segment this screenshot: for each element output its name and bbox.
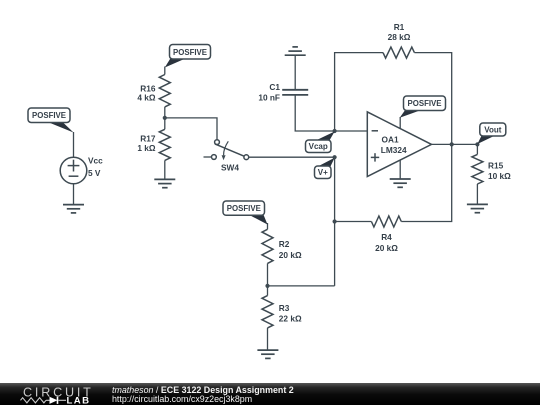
svg-text:20 kΩ: 20 kΩ [279,250,302,260]
flag POSFIVE (net label above R2) [249,215,268,225]
capacitor C1 10 nF [282,90,308,95]
wire: Vcc bottom to ground [73,184,75,205]
svg-text:R2: R2 [279,239,290,249]
resistor R1 28 kOhm [383,47,414,58]
svg-text:22 kΩ: 22 kΩ [279,314,302,324]
op-amp OA1 LM324 [367,112,431,177]
footer bar [0,383,540,405]
wire: SW4 common to V+ node [249,156,335,158]
svg-text:Vout: Vout [484,126,502,135]
flag V+ (node label) [318,158,335,167]
flag Vcap (node label) [316,132,335,141]
wire: R3 bottom to ground [267,328,269,350]
wire: V+ node down to R2/R4 net [334,157,336,286]
svg-text:POSFIVE: POSFIVE [173,47,207,57]
svg-text:R3: R3 [279,303,290,313]
svg-text:4 kΩ: 4 kΩ [137,93,156,103]
voltage source V1 Vcc 5 V [60,157,87,184]
svg-text:C1: C1 [269,82,280,92]
svg-text:LM324: LM324 [381,145,407,155]
svg-text:V+: V+ [318,168,328,177]
flag POSFIVE (net label on Vcc source) [47,122,74,133]
ground (op-amp V-) [390,179,411,187]
wire: POSFIVE flag to Vcc V1 top [73,132,75,157]
CircuitLab logo [21,385,94,405]
wire: R16 bottom to junction [164,107,166,129]
wire: feedback bottom vertical to R4 [401,144,451,221]
svg-text:SW4: SW4 [221,162,239,172]
wire: junction to SW4 top throw [165,118,217,140]
node junction (R2/R3) [265,284,269,288]
wire: POSFIVE flag to R16 top [164,67,166,75]
wire: R1 to output node vertical [414,53,451,145]
op-amp V+ supply pin [399,117,401,129]
svg-text:R1: R1 [394,22,405,32]
svg-text:10 nF: 10 nF [258,93,280,103]
resistor R16 4 kOhm [159,75,170,107]
ground (below R3) [257,350,278,358]
wire: R15 to ground [476,184,478,204]
node junction (output/feedback) [450,142,454,146]
wire: R2 bottom to junction [267,263,269,295]
svg-text:R15: R15 [488,160,504,170]
wire: R17 bottom to ground [164,160,166,179]
svg-text:POSFIVE: POSFIVE [408,98,442,108]
wire: op-amp output [432,143,478,145]
node junction V+ [333,155,337,159]
svg-text:http://circuitlab.com/cx9z2ecj: http://circuitlab.com/cx9z2ecj3k8pm [112,394,252,404]
resistor R3 22 kOhm [262,296,273,328]
resistor R4 20 kOhm [371,216,401,227]
svg-text:POSFIVE: POSFIVE [227,203,261,213]
svg-text:28 kΩ: 28 kΩ [388,32,411,42]
wire: POSFIVE flag to R2 top [267,223,269,229]
node junction Vcap [333,129,337,133]
wire: ground to C1 top plate [294,55,296,89]
wire: R4 to V+ vertical [335,221,372,223]
op-amp V- pin to ground [399,160,401,179]
resistor R2 20 kOhm [262,229,273,263]
ground (below R15) [467,204,488,212]
ground (inverted, above C1) [285,47,306,55]
node junction (Vout/R15) [475,142,479,146]
svg-text:10 kΩ: 10 kΩ [488,171,511,181]
svg-text:LAB: LAB [67,396,91,405]
node junction (R16/R17/SW4) [163,116,167,120]
wire: R2/R3 junction to V+ vertical [268,285,335,287]
flag POSFIVE (op-amp supply) [400,110,421,118]
svg-text:20 kΩ: 20 kΩ [375,243,398,253]
svg-text:OA1: OA1 [382,135,399,145]
svg-text:R4: R4 [381,232,392,242]
svg-text:Vcc: Vcc [88,156,103,166]
switch SW4 (SPDT) [204,140,249,160]
flag Vout (node label) [477,136,494,144]
svg-text:R17: R17 [140,133,156,143]
svg-text:1 kΩ: 1 kΩ [137,143,156,153]
ground (below Vcc) [63,205,84,213]
node junction (R4 / V+ net) [333,219,337,223]
svg-text:5 V: 5 V [88,168,101,178]
svg-text:POSFIVE: POSFIVE [32,110,66,120]
flag POSFIVE (net label above R16) [165,58,186,67]
ground (below R17) [154,179,175,187]
wire: Vcap node to op-amp minus input [335,130,368,132]
wire: feedback left vertical (node to R1) [335,53,383,131]
resistor R17 1 kOhm [159,129,170,160]
resistor R15 10 kOhm [476,144,478,154]
wire: C1 bottom to Vcap node [295,95,334,131]
svg-text:Vcap: Vcap [309,142,328,151]
